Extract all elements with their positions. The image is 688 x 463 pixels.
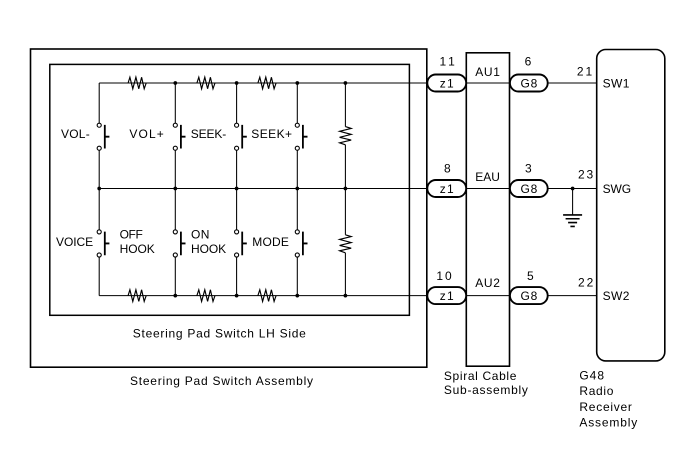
svg-text:ON: ON xyxy=(191,228,209,242)
switch OFF HOOK (pushbutton, contacts + actuator bar) xyxy=(173,230,185,257)
wire: EAU row inside spiral cable box xyxy=(465,188,511,190)
svg-text:Assembly: Assembly xyxy=(579,416,637,430)
svg-text:HOOK: HOOK xyxy=(191,242,226,256)
svg-text:G48: G48 xyxy=(579,368,604,382)
junction dots on bottom bus xyxy=(173,294,347,298)
svg-text:VOL+: VOL+ xyxy=(129,127,163,141)
wire: AU2 row G8 to radio receiver xyxy=(547,295,597,297)
svg-text:HOOK: HOOK xyxy=(120,242,155,256)
wire: middle bus EAU row xyxy=(99,188,429,190)
junction dots on top bus xyxy=(173,81,347,85)
svg-text:SEEK+: SEEK+ xyxy=(251,127,292,141)
wire: EAU row G8 to radio receiver xyxy=(547,188,597,190)
wire: resistor column upper segments xyxy=(344,83,346,189)
wire: AU2 row inside spiral cable box xyxy=(465,295,511,297)
caption: G48 Radio Receiver Assembly xyxy=(579,368,637,429)
wire: AU1 row G8 to radio receiver xyxy=(547,82,597,84)
svg-text:21: 21 xyxy=(577,65,593,79)
resistor bottom-bus R6 xyxy=(258,290,276,302)
svg-text:10: 10 xyxy=(436,269,452,283)
wire: column VOL- / VOICE lower segments xyxy=(98,189,100,296)
connector G8 pin 5 terminal oval xyxy=(510,287,548,304)
ground symbol xyxy=(563,215,582,227)
resistor top-bus R1 xyxy=(128,77,146,89)
resistor top-bus R3 xyxy=(258,77,276,89)
svg-text:Radio: Radio xyxy=(579,384,613,398)
wire: AU1 row inside spiral cable box xyxy=(465,82,511,84)
svg-text:VOL-: VOL- xyxy=(61,127,90,141)
svg-text:5: 5 xyxy=(527,269,534,283)
svg-text:AU2: AU2 xyxy=(475,276,500,290)
svg-text:SWG: SWG xyxy=(603,182,632,196)
svg-text:Steering Pad Switch Assembly: Steering Pad Switch Assembly xyxy=(130,374,313,388)
switch SEEK- (pushbutton, contacts + actuator bar) xyxy=(235,123,247,150)
switch VOL+ (pushbutton, contacts + actuator bar) xyxy=(173,123,185,150)
resistor bottom-bus R4 xyxy=(128,290,146,302)
svg-text:G8: G8 xyxy=(520,182,537,196)
wire: column VOL+ / OFF HOOK upper segments xyxy=(174,83,176,189)
svg-text:G8: G8 xyxy=(520,77,537,91)
switch MODE (pushbutton, contacts + actuator bar) xyxy=(295,230,307,257)
connector z1 pin 10 terminal oval xyxy=(427,287,466,304)
label ON HOOK xyxy=(191,228,226,256)
box: Steering Pad Switch LH Side outline xyxy=(50,64,410,315)
svg-text:AU1: AU1 xyxy=(475,65,500,79)
switch VOICE (pushbutton, contacts + actuator bar) xyxy=(97,230,109,257)
switch SEEK+ (pushbutton, contacts + actuator bar) xyxy=(295,123,307,150)
svg-text:6: 6 xyxy=(525,55,532,69)
svg-text:SW1: SW1 xyxy=(603,76,630,90)
wire: column SEEK- / ON HOOK lower segments xyxy=(236,189,238,296)
svg-text:Steering Pad Switch LH Side: Steering Pad Switch LH Side xyxy=(133,326,306,340)
switch ON HOOK (pushbutton, contacts + actuator bar) xyxy=(235,230,247,257)
svg-text:SW2: SW2 xyxy=(603,289,630,303)
switch VOL- (pushbutton, contacts + actuator bar) xyxy=(97,123,109,150)
connector z1 pin 11 terminal oval xyxy=(427,75,466,92)
wire: column SEEK- / ON HOOK upper segments xyxy=(236,83,238,189)
caption: Spiral Cable Sub-assembly xyxy=(444,369,528,397)
resistor bottom-bus R5 xyxy=(197,290,215,302)
label OFF HOOK xyxy=(120,228,155,256)
svg-text:22: 22 xyxy=(578,275,594,289)
svg-text:Receiver: Receiver xyxy=(579,400,632,414)
connector z1 pin 8 terminal oval xyxy=(427,180,466,197)
box: Steering Pad Switch Assembly outline xyxy=(31,49,427,367)
wire: column VOL+ / OFF HOOK lower segments xyxy=(174,189,176,296)
wire: bottom bus AU2 row xyxy=(99,295,429,297)
wire: column VOL- / VOICE upper segments xyxy=(98,83,100,189)
resistor vertical R7 (upper right) xyxy=(340,127,352,145)
box: Spiral Cable Sub-assembly outline xyxy=(466,53,509,366)
resistor vertical R8 (lower right) xyxy=(340,235,352,253)
connector G8 pin 3 terminal oval xyxy=(510,180,548,197)
wire: column SEEK+ / MODE upper segments xyxy=(296,83,298,189)
svg-text:z1: z1 xyxy=(440,182,454,196)
svg-text:23: 23 xyxy=(578,167,594,181)
svg-text:OFF: OFF xyxy=(120,228,143,242)
wire: resistor column lower segments xyxy=(344,189,346,296)
svg-text:z1: z1 xyxy=(440,289,454,303)
box: G48 Radio Receiver Assembly outline xyxy=(597,50,665,361)
resistor top-bus R2 xyxy=(197,77,215,89)
svg-text:EAU: EAU xyxy=(475,170,500,184)
svg-text:Sub-assembly: Sub-assembly xyxy=(444,383,528,397)
svg-text:8: 8 xyxy=(444,162,451,176)
svg-text:G8: G8 xyxy=(520,289,537,303)
svg-text:SEEK-: SEEK- xyxy=(191,127,226,141)
wire: top bus AU1 row xyxy=(99,82,429,84)
junction dots on middle bus xyxy=(97,187,347,191)
svg-text:VOICE: VOICE xyxy=(56,235,93,249)
wire: ground drop xyxy=(572,189,574,215)
wire: column SEEK+ / MODE lower segments xyxy=(296,189,298,296)
svg-text:11: 11 xyxy=(440,55,456,69)
svg-text:MODE: MODE xyxy=(252,235,289,249)
junction dot at ground tap xyxy=(571,187,575,191)
svg-text:Spiral Cable: Spiral Cable xyxy=(444,369,517,383)
svg-text:3: 3 xyxy=(525,162,532,176)
connector G8 pin 6 terminal oval xyxy=(510,75,548,92)
svg-text:z1: z1 xyxy=(440,77,454,91)
